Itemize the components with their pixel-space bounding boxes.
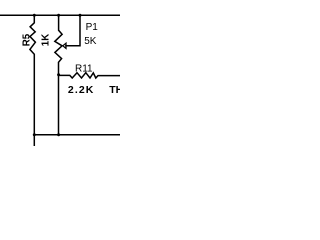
svg-text:P1: P1: [86, 22, 99, 33]
svg-text:1K: 1K: [40, 34, 51, 46]
svg-text:TH: TH: [109, 84, 120, 96]
svg-text:R5: R5: [21, 33, 32, 46]
svg-text:5K: 5K: [84, 36, 97, 47]
svg-text:R11: R11: [75, 63, 93, 74]
svg-text:2.2K: 2.2K: [68, 84, 95, 96]
